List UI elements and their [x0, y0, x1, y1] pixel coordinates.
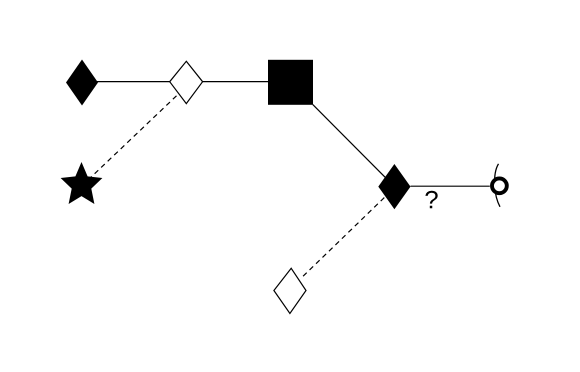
wire: solid diagonal square to diamond2	[313, 105, 395, 187]
node: filled diamond right-middle	[378, 164, 410, 209]
wire: dashed line open diamond to star	[90, 96, 177, 179]
node: filled diamond top-left	[66, 60, 98, 106]
label: question mark	[425, 191, 437, 208]
wire: solid line open diamond to square	[203, 81, 269, 83]
wire: solid line diamond1 to open diamond	[97, 81, 170, 83]
node: circle O	[492, 178, 507, 193]
node: open diamond top-middle	[170, 61, 203, 103]
decoration: parenthesis arc through circle	[495, 164, 500, 207]
wire: dashed line diamond2 to bottom diamond	[301, 198, 384, 279]
node: filled star	[61, 162, 103, 204]
wire: solid line diamond2 to circle	[411, 185, 490, 187]
node: open diamond bottom	[274, 268, 306, 313]
node: filled square	[268, 60, 313, 105]
